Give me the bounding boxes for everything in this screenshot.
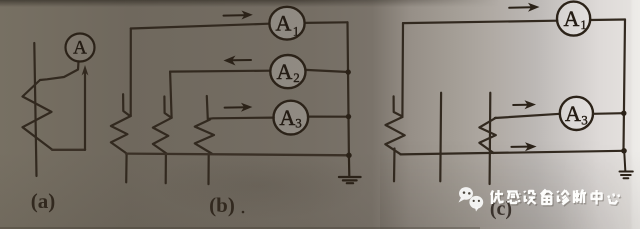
node: watermark logo chat bubbles	[459, 187, 484, 211]
arrow: current arrow above branch 2 pointing left	[224, 56, 252, 66]
wire: phase line 1 vertical of figure (c)	[401, 23, 404, 117]
op-amp: ammeter A3 of figure (c)	[560, 97, 593, 130]
node: caption (a)	[31, 189, 56, 213]
wire: line 2 tail below bottom bus (b)	[165, 154, 167, 183]
ground: earth symbol of figure (b)	[339, 155, 361, 183]
wire: winding start stub of line 1 (b)	[123, 94, 130, 116]
svg-text:(a): (a)	[31, 189, 56, 213]
node: watermark text (stylised CJK strokes)	[492, 191, 620, 206]
node: caption (b)	[209, 193, 244, 217]
wire: phase line 2 vertical of figure (b)	[170, 72, 172, 118]
wire: bottom neutral bus of figure (c)	[401, 151, 624, 155]
svg-text:A: A	[565, 101, 581, 126]
wire: phase line 3 vertical of figure (b)	[207, 96, 208, 120]
wire: phase line 3 vertical of figure (c)	[489, 93, 492, 184]
svg-text:A: A	[73, 38, 87, 59]
node: junction dot bottom bus (b)	[346, 153, 352, 159]
arrow: current arrow above bottom bus (c) pointing right	[511, 142, 536, 151]
resistor: winding zigzag on line 3 of figure (b)	[195, 120, 214, 154]
op-amp: ammeter A1 of figure (c)	[557, 2, 590, 36]
arrow: current arrow above A3 branch (c) pointing right	[513, 100, 536, 109]
svg-text:3: 3	[581, 113, 588, 128]
node: junction dot branch 2 on right bus (b)	[346, 69, 351, 74]
wire: vertical return wire with current arrow up into ammeter A	[84, 70, 86, 150]
resistor: winding zigzag on line 2 of figure (b)	[153, 118, 172, 154]
wire: A3 right wire to right bus (c)	[593, 112, 624, 115]
svg-text:A: A	[564, 6, 580, 31]
node: junction dot bottom bus right end (c)	[621, 148, 627, 154]
wire: lead from ammeter A down-left to winding top	[40, 62, 79, 81]
ground: earth symbol of figure (c)	[620, 151, 633, 179]
wire: branch 3 left wire to ammeter A3	[209, 118, 275, 119]
wire: bottom horizontal wire of figure (a)	[52, 149, 85, 151]
op-amp: ammeter A3 of figure (b)	[274, 101, 309, 135]
node: junction dot branch 3 on right bus (b)	[346, 114, 351, 119]
svg-text:1: 1	[293, 24, 300, 39]
svg-text:1: 1	[580, 17, 587, 32]
wire: line 1 tail below bottom bus (c)	[393, 149, 396, 182]
wire: top right wire from A1 to right bus (c)	[590, 18, 625, 21]
op-amp: ammeter A (meter circle) of figure (a)	[66, 34, 95, 62]
wire: branch 2 right wire from A2 to right bus	[306, 70, 349, 72]
wire: branch 2 left wire to ammeter A2	[170, 70, 270, 73]
wire: phase line 2 vertical of figure (c)	[439, 93, 442, 182]
wire: winding start stub of line 1 (c)	[394, 96, 402, 116]
wire: line 3 tail below bottom bus (b)	[207, 155, 209, 185]
svg-text:3: 3	[295, 116, 302, 131]
svg-text:2: 2	[293, 70, 300, 85]
svg-text:A: A	[276, 59, 292, 84]
node: caption (c)	[490, 198, 512, 220]
arrow: current arrow above top wire (c) pointing right	[509, 3, 539, 12]
arrow: current direction arrowhead pointing up at ammeter A	[82, 65, 89, 76]
wire: branch 3 right wire from A3 to right bus	[308, 115, 348, 117]
wire: right vertical return bus of figure (b)	[348, 22, 349, 155]
wire: branch 1 left wire to ammeter A1	[131, 24, 269, 29]
wire: line 1 tail below bottom bus (b)	[125, 154, 128, 183]
arrow: current arrow above branch 1 pointing right	[224, 11, 253, 20]
resistor: winding zigzag on line 1 of figure (c)	[385, 117, 404, 154]
wire: winding start stub of line 2 (b)	[164, 97, 171, 118]
wire: right vertical return bus of figure (c)	[624, 20, 626, 151]
svg-text:A: A	[276, 11, 292, 36]
resistor: winding zigzag on line 1 of figure (b)	[111, 116, 131, 153]
resistor: winding zigzag of figure (a)	[23, 80, 53, 150]
wire: vertical phase line of figure (a)	[34, 43, 36, 176]
wire: branch 1 right wire from A1 to right bus	[305, 21, 347, 24]
op-amp: ammeter A2 of figure (b)	[270, 55, 305, 88]
wire: branch wire from winding 3 to ammeter A3 (c)	[495, 114, 560, 118]
wire: phase line 1 vertical of figure (b)	[130, 29, 132, 117]
wire: bottom neutral bus of figure (b)	[126, 154, 349, 156]
op-amp: ammeter A1 of figure (b)	[269, 7, 304, 40]
svg-text:A: A	[279, 105, 295, 130]
svg-text:(b): (b)	[209, 193, 235, 217]
arrow: current arrow above branch 3 pointing right	[225, 103, 253, 112]
node: junction dot A3 branch on right bus (c)	[621, 111, 626, 116]
resistor: winding zigzag on line 3 of figure (c)	[479, 118, 495, 153]
wire: top wire of figure (c) to ammeter A1	[403, 21, 557, 23]
